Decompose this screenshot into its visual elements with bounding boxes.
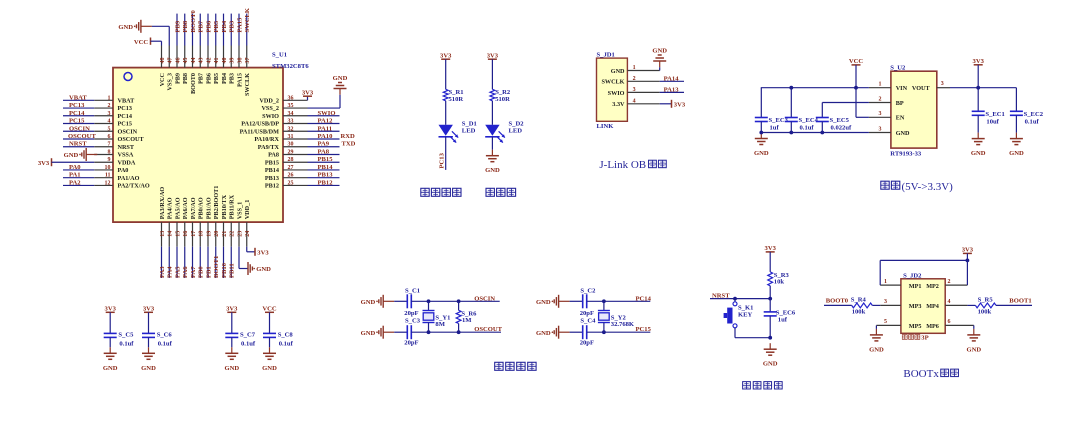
pin 5 stub bbox=[876, 324, 901, 326]
svg-text:PC14: PC14 bbox=[636, 295, 652, 302]
svg-text:VBAT: VBAT bbox=[69, 94, 87, 101]
ground (S_C4) bbox=[536, 326, 570, 339]
wire bbox=[660, 80, 684, 82]
svg-text:34: 34 bbox=[288, 111, 294, 117]
capacitor S_EC6 1uf bbox=[764, 312, 777, 316]
svg-text:0.1uf: 0.1uf bbox=[241, 341, 256, 348]
wire bbox=[161, 41, 163, 45]
wire bbox=[94, 153, 97, 155]
svg-text:PA4: PA4 bbox=[167, 266, 174, 278]
svg-text:8: 8 bbox=[108, 149, 111, 155]
wire bbox=[63, 184, 94, 186]
ground (JD1 pin 1) bbox=[652, 48, 667, 68]
pin 1 stub bbox=[627, 70, 659, 72]
wire bbox=[223, 14, 225, 46]
junction bbox=[854, 86, 858, 90]
svg-text:3V3: 3V3 bbox=[38, 160, 50, 167]
wire bbox=[394, 331, 407, 333]
wire bbox=[735, 337, 770, 339]
svg-text:PB6: PB6 bbox=[205, 20, 212, 32]
wire bbox=[491, 59, 493, 89]
svg-text:6: 6 bbox=[948, 319, 951, 325]
wire bbox=[246, 247, 248, 252]
wire bbox=[269, 312, 271, 333]
svg-text:SWCLK: SWCLK bbox=[244, 7, 251, 32]
svg-text:S_R2: S_R2 bbox=[495, 89, 511, 96]
wire bbox=[445, 59, 447, 89]
svg-text:PA6: PA6 bbox=[182, 266, 189, 278]
svg-text:PA6/AO: PA6/AO bbox=[182, 197, 189, 219]
capacitor S_C3 20pF bbox=[407, 325, 411, 339]
ground (S_C8) bbox=[262, 347, 277, 372]
pin 44 stub bbox=[192, 46, 194, 68]
wire bbox=[856, 116, 869, 118]
wire bbox=[308, 123, 340, 125]
wire bbox=[168, 247, 170, 278]
power 3V3 (VDD_1 pin 24) bbox=[255, 248, 269, 257]
svg-text:GND: GND bbox=[754, 150, 769, 157]
svg-text:28: 28 bbox=[288, 157, 294, 163]
pin 40 stub bbox=[223, 46, 225, 68]
svg-text:14: 14 bbox=[168, 231, 174, 237]
section title 电源灯 bbox=[486, 188, 494, 196]
wire bbox=[491, 101, 493, 125]
pin 34 stub bbox=[283, 115, 308, 117]
svg-text:BP: BP bbox=[896, 100, 904, 107]
power 3V3 (S_C7) bbox=[226, 306, 238, 313]
wire bbox=[760, 88, 762, 118]
svg-text:S_C6: S_C6 bbox=[157, 331, 173, 338]
svg-text:PB9: PB9 bbox=[174, 73, 181, 84]
svg-text:PA11: PA11 bbox=[318, 125, 333, 132]
svg-text:S_JD2: S_JD2 bbox=[903, 273, 922, 280]
wire bbox=[151, 40, 162, 42]
svg-text:2: 2 bbox=[948, 279, 951, 285]
svg-text:PB2/BOOT1: PB2/BOOT1 bbox=[213, 186, 220, 220]
svg-text:PB3: PB3 bbox=[229, 20, 236, 32]
svg-text:0.1uf: 0.1uf bbox=[119, 341, 134, 348]
pin stub left 2 bbox=[869, 102, 891, 104]
pin 16 stub bbox=[184, 222, 186, 247]
svg-text:PB6: PB6 bbox=[205, 73, 212, 84]
svg-text:BOOT0: BOOT0 bbox=[190, 73, 197, 94]
wire bbox=[207, 14, 209, 46]
svg-text:PC15: PC15 bbox=[636, 326, 652, 333]
power 3V3 (VDDA pin 9) bbox=[38, 158, 52, 167]
svg-text:MP3: MP3 bbox=[909, 303, 922, 310]
svg-text:10uf: 10uf bbox=[986, 119, 999, 126]
junction bbox=[457, 299, 461, 303]
svg-text:4: 4 bbox=[633, 98, 636, 104]
wire bbox=[148, 312, 150, 333]
svg-text:NRST: NRST bbox=[69, 141, 87, 148]
svg-text:MP1: MP1 bbox=[909, 283, 922, 290]
svg-text:RXD: RXD bbox=[341, 133, 356, 140]
pin 22 stub bbox=[230, 222, 232, 247]
crystal S_Y2 32.768K bbox=[598, 311, 610, 323]
wire bbox=[238, 247, 240, 269]
svg-text:GND: GND bbox=[361, 330, 376, 337]
resistor S_R4 100k bbox=[852, 303, 873, 308]
wire bottom rail bbox=[411, 331, 501, 333]
power VCC (S_C8) bbox=[262, 306, 277, 313]
wire bbox=[109, 337, 111, 347]
power 3V3 (S_C6) bbox=[143, 306, 155, 313]
wire bbox=[875, 325, 877, 329]
wire bbox=[63, 138, 94, 140]
pin stub VOUT bbox=[937, 87, 950, 89]
wire bbox=[879, 260, 881, 285]
svg-text:PB12: PB12 bbox=[318, 179, 334, 186]
svg-text:PA9: PA9 bbox=[318, 141, 330, 148]
svg-text:GND: GND bbox=[224, 365, 239, 372]
svg-text:PA3/RX/AO: PA3/RX/AO bbox=[159, 187, 166, 220]
svg-text:GND: GND bbox=[536, 330, 551, 337]
wire bbox=[769, 316, 771, 338]
svg-text:20: 20 bbox=[214, 231, 220, 237]
ground (S_C3) bbox=[361, 326, 395, 339]
wire bbox=[63, 169, 94, 171]
pin 4 stub bbox=[94, 123, 113, 125]
wire bbox=[872, 304, 880, 306]
svg-text:4: 4 bbox=[108, 119, 111, 125]
svg-text:100k: 100k bbox=[978, 308, 992, 315]
svg-text:MP6: MP6 bbox=[926, 323, 939, 330]
ground (VSS_2 pin 35) bbox=[333, 75, 348, 95]
capacitor S_EC1 10uf bbox=[972, 111, 985, 115]
svg-text:GND: GND bbox=[361, 299, 376, 306]
wire bbox=[247, 251, 255, 253]
svg-text:S_R5: S_R5 bbox=[978, 297, 994, 304]
section title 电源(5V-&gt;3.3V) bbox=[881, 181, 889, 189]
wire bbox=[246, 14, 248, 46]
svg-text:S_K1: S_K1 bbox=[738, 304, 753, 311]
svg-text:PB14: PB14 bbox=[318, 164, 334, 171]
power 3V3 (VDD_2 pin 36) bbox=[302, 89, 314, 96]
svg-text:PA12/USB/DP: PA12/USB/DP bbox=[241, 121, 279, 128]
wire bbox=[973, 325, 975, 329]
pin 23 stub bbox=[238, 222, 240, 247]
svg-text:PC15: PC15 bbox=[118, 121, 132, 128]
svg-text:PB1: PB1 bbox=[205, 266, 212, 278]
svg-text:4: 4 bbox=[948, 299, 951, 305]
wire bbox=[445, 137, 447, 170]
svg-text:S_U2: S_U2 bbox=[890, 65, 906, 72]
svg-text:OSCIN: OSCIN bbox=[474, 295, 495, 302]
resistor S_R2 510R bbox=[490, 89, 495, 101]
svg-text:3V3: 3V3 bbox=[143, 306, 155, 313]
wire bbox=[445, 101, 447, 125]
pin 14 stub bbox=[168, 222, 170, 247]
svg-text:SWIO: SWIO bbox=[318, 110, 336, 117]
svg-text:3: 3 bbox=[633, 87, 636, 93]
svg-text:1uf: 1uf bbox=[778, 317, 788, 324]
wire bbox=[458, 324, 460, 333]
svg-text:BOOT1: BOOT1 bbox=[1009, 297, 1031, 304]
svg-text:1uf: 1uf bbox=[770, 125, 780, 132]
wire bbox=[307, 96, 309, 100]
svg-text:VOUT: VOUT bbox=[912, 85, 931, 92]
wire bbox=[63, 123, 94, 125]
svg-text:20pF: 20pF bbox=[580, 339, 594, 346]
svg-text:S_JD1: S_JD1 bbox=[597, 52, 615, 59]
svg-text:20pF: 20pF bbox=[404, 339, 418, 346]
svg-text:9: 9 bbox=[108, 157, 111, 163]
power 3V3 (S_R1) bbox=[440, 52, 452, 59]
svg-text:OSCOUT: OSCOUT bbox=[68, 133, 96, 140]
ground (S_C2) bbox=[536, 295, 570, 308]
wire bbox=[63, 130, 94, 132]
wire bbox=[769, 286, 771, 299]
svg-text:LED: LED bbox=[462, 127, 476, 134]
junction bbox=[966, 259, 970, 263]
svg-text:S_C5: S_C5 bbox=[118, 331, 134, 338]
svg-text:PB5: PB5 bbox=[213, 73, 220, 84]
junction bbox=[733, 297, 737, 301]
push button S_K1 KEY bbox=[724, 302, 737, 328]
pin 20 stub bbox=[215, 222, 217, 247]
pin 46 stub bbox=[176, 46, 178, 68]
svg-text:VSSA: VSSA bbox=[118, 152, 134, 159]
svg-text:39: 39 bbox=[230, 58, 236, 64]
LED S_D1 bbox=[439, 125, 459, 143]
svg-text:GND: GND bbox=[652, 48, 667, 55]
ground (S_C7) bbox=[224, 347, 239, 372]
pin 35 stub bbox=[283, 107, 308, 109]
svg-text:OSCOUT: OSCOUT bbox=[118, 136, 145, 143]
wire bbox=[176, 247, 178, 278]
svg-text:PA11/USB/DM: PA11/USB/DM bbox=[240, 128, 280, 135]
pin 37 stub bbox=[246, 46, 248, 68]
svg-text:PA3: PA3 bbox=[159, 266, 166, 278]
wire bbox=[822, 102, 869, 104]
pin 38 stub bbox=[238, 46, 240, 68]
pin 2 stub bbox=[945, 284, 967, 286]
junction bbox=[602, 299, 606, 303]
pin 21 stub bbox=[223, 222, 225, 247]
pin 3 stub bbox=[627, 91, 659, 93]
wire bbox=[659, 67, 661, 70]
wire bbox=[977, 88, 979, 112]
wire bbox=[230, 14, 232, 46]
svg-text:2: 2 bbox=[108, 103, 111, 109]
svg-text:11: 11 bbox=[105, 173, 111, 179]
svg-text:PA8: PA8 bbox=[268, 152, 279, 159]
junction bbox=[427, 299, 431, 303]
svg-text:VDD_1: VDD_1 bbox=[244, 200, 251, 220]
pin 43 stub bbox=[199, 46, 201, 68]
svg-text:NRST: NRST bbox=[712, 292, 730, 299]
pin 4 stub bbox=[627, 103, 659, 105]
power 3V3 (VOUT) bbox=[973, 58, 985, 65]
wire top rail bbox=[587, 300, 651, 302]
ground (EC3) bbox=[754, 133, 769, 158]
wire bbox=[199, 247, 201, 278]
wire bbox=[308, 115, 340, 117]
svg-text:S_EC6: S_EC6 bbox=[776, 310, 796, 317]
svg-text:33: 33 bbox=[288, 119, 294, 125]
pin 13 stub bbox=[161, 222, 163, 247]
wire bbox=[821, 122, 823, 133]
svg-text:27: 27 bbox=[288, 165, 294, 171]
svg-text:6: 6 bbox=[108, 134, 111, 140]
svg-text:46: 46 bbox=[175, 58, 181, 64]
svg-text:SWIO: SWIO bbox=[262, 113, 279, 120]
svg-text:PC13: PC13 bbox=[69, 102, 85, 109]
wire bbox=[308, 169, 340, 171]
wire bbox=[855, 88, 857, 118]
pin 7 stub bbox=[94, 146, 113, 148]
svg-text:S_C7: S_C7 bbox=[240, 331, 256, 338]
svg-text:17: 17 bbox=[191, 231, 197, 237]
svg-text:PC14: PC14 bbox=[69, 110, 85, 117]
svg-text:0.1uf: 0.1uf bbox=[158, 341, 173, 348]
pin 48 stub bbox=[161, 46, 163, 68]
svg-text:35: 35 bbox=[288, 103, 294, 109]
pin 3 stub bbox=[880, 304, 901, 306]
junction bbox=[768, 297, 772, 301]
junction bbox=[457, 330, 461, 334]
svg-text:PB7: PB7 bbox=[198, 20, 205, 32]
ground (VSSA pin 8) bbox=[64, 148, 98, 161]
wire bbox=[63, 99, 94, 101]
pin 1 stub bbox=[94, 99, 113, 101]
svg-text:VCC: VCC bbox=[159, 73, 166, 86]
wire bbox=[308, 146, 340, 148]
ground (VSS_3 pin 47) bbox=[118, 20, 152, 33]
svg-text:36: 36 bbox=[288, 95, 294, 101]
pin 41 stub bbox=[215, 46, 217, 68]
ground (S_C6) bbox=[141, 347, 156, 372]
svg-text:21: 21 bbox=[222, 231, 228, 237]
junction bbox=[820, 131, 824, 135]
svg-text:VCC: VCC bbox=[262, 306, 277, 313]
connector S_JD1 body bbox=[597, 58, 628, 121]
svg-text:3V3: 3V3 bbox=[962, 247, 974, 254]
junction bbox=[602, 330, 606, 334]
svg-text:PA13: PA13 bbox=[664, 86, 680, 93]
junction bbox=[789, 86, 793, 90]
svg-text:S_C2: S_C2 bbox=[580, 288, 596, 295]
ground (JD2 pin 6) bbox=[966, 329, 981, 354]
svg-text:8M: 8M bbox=[435, 321, 445, 328]
svg-text:30: 30 bbox=[288, 142, 294, 148]
svg-text:3: 3 bbox=[879, 111, 882, 117]
svg-text:GND: GND bbox=[118, 24, 133, 31]
svg-text:0.1uf: 0.1uf bbox=[279, 341, 294, 348]
wire bbox=[52, 161, 95, 163]
svg-text:RT9193-33: RT9193-33 bbox=[890, 150, 922, 157]
capacitor S_EC3 1uf bbox=[755, 118, 768, 122]
pin 5 stub bbox=[94, 130, 113, 132]
wire bbox=[308, 161, 340, 163]
section title 可编程灯 bbox=[421, 188, 429, 196]
svg-text:PB4: PB4 bbox=[221, 73, 228, 84]
svg-text:GND: GND bbox=[333, 75, 348, 82]
ground (S_EC1) bbox=[971, 133, 986, 158]
svg-text:PB12: PB12 bbox=[265, 183, 279, 190]
wire bbox=[821, 103, 823, 118]
svg-text:PA0: PA0 bbox=[118, 167, 129, 174]
svg-text:PB9: PB9 bbox=[174, 20, 181, 32]
wire bbox=[570, 300, 583, 302]
pin 26 stub bbox=[283, 177, 308, 179]
svg-text:32: 32 bbox=[288, 126, 294, 132]
power 3V3 (S_R2) bbox=[487, 52, 499, 59]
wire bbox=[239, 268, 248, 270]
svg-text:3V3: 3V3 bbox=[105, 306, 117, 313]
LED S_D2 bbox=[485, 125, 505, 143]
svg-text:40: 40 bbox=[222, 58, 228, 64]
svg-text:2: 2 bbox=[633, 76, 636, 82]
svg-text:0.1uf: 0.1uf bbox=[1025, 119, 1040, 126]
svg-text:48: 48 bbox=[160, 58, 166, 64]
svg-text:GND: GND bbox=[971, 150, 986, 157]
wire bbox=[977, 65, 979, 88]
svg-text:S_R4: S_R4 bbox=[851, 297, 867, 304]
svg-text:PA15: PA15 bbox=[236, 17, 243, 33]
svg-text:510R: 510R bbox=[449, 96, 464, 103]
resistor S_R6 1M bbox=[456, 310, 461, 323]
svg-text:PA2: PA2 bbox=[69, 179, 81, 186]
svg-text:EN: EN bbox=[896, 115, 905, 122]
svg-text:3: 3 bbox=[884, 299, 887, 305]
wire bbox=[215, 247, 217, 278]
wire bbox=[215, 14, 217, 46]
svg-text:VSS_1: VSS_1 bbox=[236, 202, 243, 220]
svg-text:PC13: PC13 bbox=[118, 105, 132, 112]
wire bbox=[63, 146, 94, 148]
svg-text:41: 41 bbox=[214, 58, 220, 64]
section title 复位电路 bbox=[743, 382, 751, 389]
capacitor S_C6 0.1uf bbox=[142, 333, 155, 337]
pin 45 stub bbox=[184, 46, 186, 68]
svg-text:STM32C8T6: STM32C8T6 bbox=[272, 63, 309, 70]
capacitor S_C5 0.1uf bbox=[104, 333, 117, 337]
wire bbox=[603, 301, 605, 310]
svg-text:PA15: PA15 bbox=[236, 73, 243, 87]
wire bbox=[109, 312, 111, 333]
svg-text:S_EC5: S_EC5 bbox=[830, 117, 850, 124]
svg-text:20pF: 20pF bbox=[404, 310, 418, 317]
svg-text:MP4: MP4 bbox=[926, 303, 939, 310]
svg-text:3V3: 3V3 bbox=[973, 58, 985, 65]
svg-text:7: 7 bbox=[108, 142, 111, 148]
svg-text:12: 12 bbox=[105, 180, 111, 186]
wire top rail bbox=[411, 300, 499, 302]
svg-text:BOOT0: BOOT0 bbox=[826, 297, 849, 304]
svg-text:PA1/AO: PA1/AO bbox=[118, 175, 140, 182]
junction bbox=[976, 86, 980, 90]
svg-text:2: 2 bbox=[879, 96, 882, 102]
svg-text:3V3: 3V3 bbox=[302, 89, 314, 96]
ground (JD2 pin 5) bbox=[869, 329, 884, 354]
wire bbox=[394, 300, 407, 302]
svg-text:PB0/AO: PB0/AO bbox=[198, 197, 205, 219]
op-amp U1 body (MCU S_U1 STM32C8T6) bbox=[113, 68, 283, 223]
svg-text:PA1: PA1 bbox=[69, 172, 81, 179]
svg-text:GND: GND bbox=[485, 167, 500, 174]
svg-text:PA14: PA14 bbox=[664, 75, 680, 82]
pin 42 stub bbox=[207, 46, 209, 68]
svg-text:3: 3 bbox=[879, 126, 882, 132]
pin 3 stub bbox=[94, 115, 113, 117]
svg-text:45: 45 bbox=[183, 58, 189, 64]
svg-text:S_C8: S_C8 bbox=[278, 331, 294, 338]
svg-text:PA7/AO: PA7/AO bbox=[190, 197, 197, 219]
capacitor S_EC4 0.1uf bbox=[785, 118, 798, 122]
wire bbox=[769, 299, 771, 312]
